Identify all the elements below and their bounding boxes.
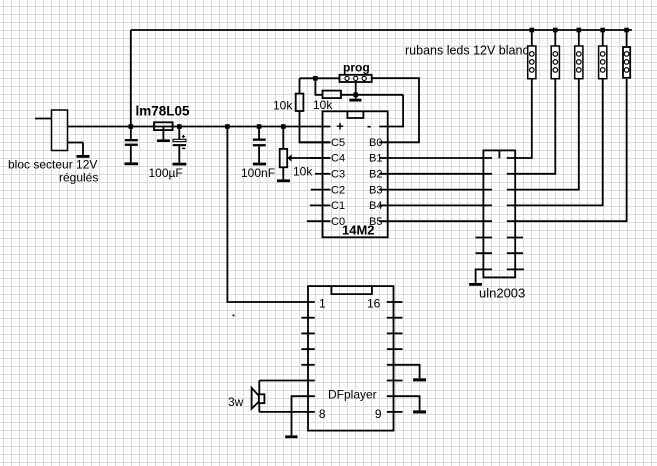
node junction bus-strip1 [530,28,535,33]
wire df12 to ground [387,365,420,379]
svg-text:prog: prog [343,61,370,75]
wire minus pin net [379,95,403,127]
capacitor C2 100uF electrolytic [173,127,186,163]
LED strip LS2 [551,30,559,79]
wire df7 to ground [292,396,315,435]
svg-text:8: 8 [319,407,326,421]
speaker LS 3w [252,381,315,412]
svg-text:100nF: 100nF [241,166,275,180]
pin uln gnd [476,269,492,283]
wire out1 to strip1 [507,79,532,158]
regulator U2 lm78L05 [154,122,173,142]
pin df3 [301,332,314,334]
svg-text:lm78L05: lm78L05 [136,104,191,119]
pin df16 [387,301,403,303]
labels DFplayer pins [319,297,382,422]
pin uln in6 [476,237,493,239]
connector prog header [340,75,372,99]
ground GND1 [77,155,90,158]
wire out5 to strip5 [507,79,627,222]
pin uln com [507,268,524,270]
ground GND8 [413,378,426,381]
IC U3 uln2003 [483,150,515,277]
pin uln out6 [507,237,523,239]
svg-text:rubans leds 12V blanc: rubans leds 12V blanc [405,44,529,58]
svg-text:+: + [336,119,344,134]
pin df2 [301,317,314,319]
node junction rail-C3 [257,124,262,129]
pin df14 [387,332,403,334]
pin uln in7 [476,252,493,254]
node junction rail-pot [281,124,286,129]
node junction R2 branch [313,76,318,81]
pin C0 [307,220,331,222]
wire out2 to strip2 [507,79,556,174]
ground GND2 [125,162,139,165]
svg-text:C4: C4 [331,153,345,165]
pin df4 [301,348,314,350]
pin df15 [387,317,403,319]
svg-text:9: 9 [375,407,382,421]
wire main 12V/5V rail [68,126,331,128]
svg-text:-: - [367,118,371,133]
node junction bus-strip3 [577,28,582,33]
pin C1 [310,204,331,206]
labels 14M2 pins [331,118,383,238]
wire B1 to uln [379,157,492,159]
svg-text:DFplayer: DFplayer [328,388,377,402]
wire B2 to uln [379,173,492,175]
pin df9 [387,411,403,413]
wire B4 to uln [379,204,492,206]
capacitor C3 100nF [253,127,266,163]
svg-text:C5: C5 [331,137,345,149]
node junction rail-C2 [177,124,182,129]
svg-text:10k: 10k [273,99,293,113]
wire 12V riser to top bus [130,30,132,127]
svg-text:16: 16 [367,297,381,311]
svg-text:uln2003: uln2003 [479,286,525,301]
wire B5 to uln [379,220,492,222]
node junction rail-DFplayer feed [225,124,230,129]
node junction bus-strip5 [624,28,629,33]
ground GND5 [277,179,290,182]
node junction bus-strip2 [553,28,558,33]
wire R1 top to prog pin1 [300,77,340,79]
svg-text:bloc secteur 12V: bloc secteur 12V [8,158,97,172]
ground GND4 [253,163,266,166]
wire 5V feed to DFplayer pin1 [227,127,314,303]
svg-text:B4: B4 [369,200,382,212]
svg-text:B1: B1 [369,153,382,165]
node junction bus-strip4 [600,28,605,33]
wire out3 to strip3 [507,79,579,190]
ground GND9 [413,410,426,413]
pin df13 [387,348,403,350]
ground GND7 [469,283,482,286]
node junction prog gnd [353,93,358,98]
svg-text:B0: B0 [369,137,382,149]
wire out4 to strip4 [507,79,603,206]
pin df11 [387,380,403,382]
wire B3 to uln [379,189,492,191]
pin uln out7 [507,252,523,254]
svg-text:C3: C3 [331,169,345,181]
pin C4 [310,157,331,159]
wire df10 to ground [387,396,420,410]
LED strip LS5 [623,30,630,78]
pin C3 [315,173,331,175]
potentiometer RV1 10k [280,127,331,180]
svg-text:B3: B3 [369,184,382,196]
svg-text:10k: 10k [313,98,333,112]
wire top 12V bus [131,29,632,31]
node junction rail-riser [129,124,134,129]
svg-text:régulés: régulés [59,171,98,185]
pin C2 [311,189,331,191]
ground GND3 [173,163,187,166]
pin C5 [300,141,331,143]
LED strip LS4 [599,30,607,79]
IC U1 14M2 [323,111,388,237]
svg-text:100µF: 100µF [149,166,183,180]
svg-text:C1: C1 [331,200,345,212]
ground GND10 [285,435,297,438]
label bloc secteur 12V regules [8,158,98,185]
resistor R2 10k [315,78,403,98]
resistor R1 10k [296,78,331,142]
wire B0 to prog loop [372,78,419,142]
svg-text:3w: 3w [228,395,244,409]
capacitor C1 [125,127,138,163]
svg-text:C2: C2 [331,184,345,196]
svg-text:14M2: 14M2 [342,223,375,238]
svg-text:1: 1 [319,297,326,311]
LED strip LS1 [528,30,536,79]
ground GND6 [349,99,361,102]
svg-text:10k: 10k [293,165,313,179]
connector J1 bloc secteur [35,110,83,155]
pin df5 [301,364,314,366]
LED strip LS3 [575,30,583,79]
node stray dot [233,315,235,317]
svg-text:B2: B2 [369,169,382,181]
IC U4 DFplayer [308,286,394,431]
